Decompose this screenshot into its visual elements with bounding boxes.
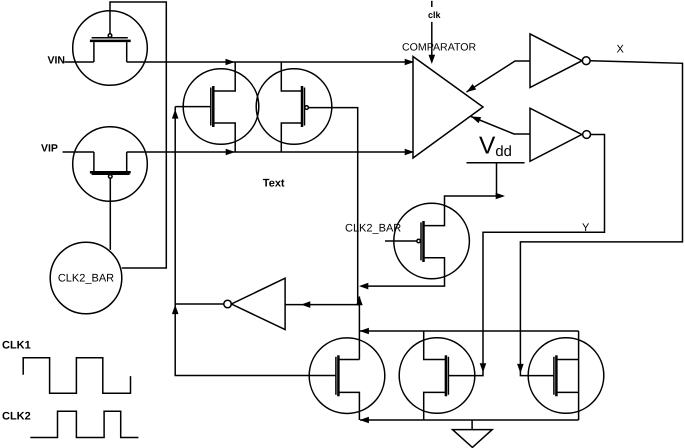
- arrow at comparator upper-right edge: [467, 84, 477, 92]
- wire M5 source down and left to crossbar vertical: [361, 258, 445, 286]
- wire comparator to U3 input (arrow back at comparator): [471, 117, 530, 135]
- wire M2 drain to comparator bottom input: [127, 151, 413, 153]
- transistor M4 (latch PMOS, gate right with bubble): [256, 62, 332, 152]
- node CLK2_BAR (clock source circle): [50, 242, 122, 314]
- svg-text:CLK2_BAR: CLK2_BAR: [58, 273, 114, 285]
- svg-text:VIN: VIN: [48, 54, 66, 66]
- arrow left mid-wire on U4 input: [301, 301, 310, 308]
- svg-text:Vdd: Vdd: [479, 133, 512, 161]
- wire VIN label to M1 source: [65, 61, 94, 63]
- svg-text:CLK2: CLK2: [2, 411, 31, 423]
- arrow X wire down onto M8 gate: [517, 364, 524, 373]
- waveform CLK2: [30, 411, 138, 437]
- wire Vdd down to M5 drain wire: [496, 163, 498, 196]
- ground symbol: [453, 430, 493, 448]
- wire M3 gate from feedback vertical: [175, 106, 211, 108]
- wire U4 output to feedback vertical: [175, 303, 224, 305]
- transistor M6 (bottom-left NMOS, gate left): [309, 338, 385, 420]
- transistor M7 (bottom-middle NMOS, gate right): [399, 331, 475, 420]
- svg-text:VIP: VIP: [41, 143, 58, 155]
- ground stub: [471, 420, 473, 430]
- wire M1 drain to comparator top input: [127, 61, 413, 63]
- Vdd underline: [467, 162, 525, 164]
- arrow on bottom wire at M3 source junction: [226, 149, 235, 156]
- arrow into comparator bottom input: [405, 149, 414, 156]
- comparator U1 triangle: [413, 57, 483, 159]
- svg-text:Text: Text: [263, 178, 285, 190]
- svg-text:clk: clk: [428, 10, 442, 20]
- transistor M2 (VIP input PMOS, flipped): [73, 127, 148, 202]
- wire M6 drain up to crossbar (arrow up): [358, 297, 360, 360]
- arrow up at U4 output junction: [172, 305, 179, 314]
- transistor M5 (CLK2_BAR switch PMOS): [394, 203, 470, 279]
- transistor M3 (latch NMOS, gate left): [183, 62, 259, 152]
- svg-text:COMPARATOR: COMPARATOR: [402, 42, 477, 54]
- wire M2 gate down to CLK2_BAR node circle: [109, 178, 111, 250]
- wire X: U2 output right, down, left, down to M8 gate: [520, 61, 682, 376]
- wire U4 input from crossbar vertical: [285, 304, 360, 306]
- arrow clk down: [429, 55, 436, 64]
- arrow up at crossbar junction: [356, 296, 363, 305]
- arrow on top wire at M3 drain junction: [226, 59, 235, 66]
- clk stub tick: [431, 1, 433, 7]
- wire feedback vertical: M3 gate down to M6 gate: [175, 107, 336, 376]
- wire comparator to U2 input (arrow back at comparator): [467, 61, 531, 92]
- wire bottom rail: [360, 419, 579, 421]
- arrow up at top of feedback vertical: [172, 109, 179, 118]
- wire right side rail: [578, 331, 580, 420]
- wire M4 gate right then down to bottom crossbar junction: [308, 108, 357, 305]
- arrow into comparator top input: [405, 59, 414, 66]
- wire Y: U3 output right, down, left, down to M7 gate: [449, 135, 605, 376]
- wire top rail of bottom transistors: [360, 330, 579, 332]
- arrow right at Vdd junction: [496, 193, 505, 200]
- transistor M1 (VIN input PMOS): [73, 11, 148, 86]
- wire M5 drain up to Vdd junction: [424, 196, 504, 226]
- inverter U2 (top, output X): [530, 34, 590, 88]
- arrow at comparator lower-right edge: [471, 117, 481, 124]
- inverter U3 (second, output Y): [530, 108, 590, 161]
- waveform CLK1: [23, 358, 130, 394]
- arrow left into crossbar vertical: [359, 283, 368, 290]
- arrow left at bottom rail end: [360, 417, 369, 424]
- wire VIP label to M2: [63, 151, 94, 153]
- svg-text:X: X: [617, 44, 625, 56]
- wire M1 gate up over to vertical and down to CLK2_BAR node: [110, 2, 166, 268]
- wire clk into comparator: [431, 22, 433, 55]
- svg-text:CLK2_BAR: CLK2_BAR: [345, 223, 401, 235]
- transistor M8 (bottom-right NMOS, gate left): [528, 338, 604, 414]
- arrow Y wire down onto M7 gate: [480, 363, 487, 372]
- arrow left at top rail end: [360, 328, 369, 335]
- wire M5 gate stub: [385, 240, 417, 242]
- inverter U4 (feedback, pointing left): [224, 278, 285, 329]
- svg-text:CLK1: CLK1: [2, 340, 31, 352]
